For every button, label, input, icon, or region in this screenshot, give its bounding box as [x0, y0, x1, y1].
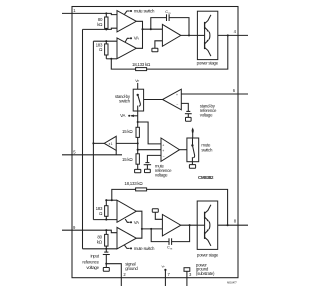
- node miller cap right ch2: [189, 224, 191, 226]
- svg-text:VA: VA: [134, 220, 139, 225]
- wire summing node to U5 input: [142, 228, 163, 230]
- svg-text:m: m: [170, 248, 173, 251]
- svg-text:C: C: [165, 9, 168, 14]
- node top of R8: [105, 229, 107, 231]
- mute reference voltage source: [144, 155, 161, 172]
- power ground symbol: [184, 268, 190, 286]
- svg-text:voltage: voltage: [155, 173, 168, 178]
- VA tap at T2: [125, 36, 139, 42]
- node T1+T2 outputs: [141, 28, 143, 30]
- VA tap at T6: [125, 219, 139, 225]
- resistor R 80k (ch2): [105, 230, 108, 249]
- wire J1 to buffer input: [116, 142, 138, 144]
- signal ground flag at U5: [152, 209, 162, 220]
- svg-text:Ω: Ω: [99, 211, 103, 216]
- svg-text:7: 7: [168, 272, 171, 277]
- wire VA node to mute comparator top input: [138, 122, 161, 144]
- wire U1 output to power stage: [181, 34, 198, 36]
- svg-text:C: C: [167, 245, 170, 250]
- svg-text:Ω: Ω: [99, 47, 103, 52]
- signal ground flag at U1: [152, 41, 163, 52]
- wire pin 9 input: [62, 230, 117, 233]
- mute switch tap at T1: [125, 8, 156, 14]
- wire buffer feedback to pin 5 line: [115, 150, 117, 154]
- op-amp U5 (ch2 driver): [162, 215, 180, 236]
- wire T1 output: [136, 21, 142, 29]
- resistor R 80k (ch1): [105, 13, 108, 29]
- node miller cap tap ch1: [150, 28, 152, 30]
- svg-text:CM8382: CM8382: [198, 175, 214, 180]
- svg-text:−: −: [176, 103, 178, 107]
- svg-text:voltage: voltage: [86, 265, 99, 270]
- capacitor Cm (ch2 miller): [151, 225, 189, 245]
- svg-text:(substrate): (substrate): [196, 271, 215, 276]
- wire T6 output: [136, 211, 142, 229]
- wire feedback ch2: [112, 189, 228, 225]
- transistors Q1 Q2 (ch1 power stage): [197, 15, 211, 56]
- wire T2 output: [136, 29, 142, 48]
- wire switch drive from U2: [144, 99, 163, 101]
- wire 80k bottom node to T1 inverting input: [83, 28, 118, 29]
- svg-text:VA: VA: [120, 113, 125, 118]
- svg-text:VP: VP: [135, 79, 139, 83]
- wire pin 2 signal ground: [106, 264, 121, 286]
- svg-text:ground: ground: [125, 266, 138, 271]
- svg-text:183: 183: [96, 206, 103, 211]
- wire rail A to 80k bottom and T7 lower input: [83, 248, 118, 250]
- svg-text:3: 3: [189, 272, 192, 277]
- transistors Q3 Q4 (ch2 power stage): [197, 205, 211, 246]
- svg-text:voltage: voltage: [200, 113, 213, 118]
- svg-text:4: 4: [234, 29, 237, 34]
- wire summing node to U1 input: [143, 28, 163, 30]
- svg-text:MGU477: MGU477: [227, 280, 237, 284]
- wire feedback ch1: [111, 35, 228, 69]
- svg-text:+: +: [162, 149, 164, 153]
- wire buffer output to rail B: [93, 142, 104, 144]
- op-amp T7 (ch2 input amp): [117, 227, 136, 249]
- svg-text:15 kΩ: 15 kΩ: [122, 157, 133, 162]
- node output ch1: [227, 34, 229, 36]
- input reference voltage source: [103, 249, 110, 264]
- wire rail B to T2 top input: [93, 40, 117, 42]
- node top of R2: [105, 40, 107, 42]
- op-amp U1 (ch1 driver): [162, 24, 180, 46]
- node fb tap ch2: [111, 199, 113, 201]
- node VP pin terminal: [164, 269, 166, 271]
- node signal ground ref: [105, 263, 107, 265]
- op-amp T1 (ch1 input amp): [117, 11, 136, 32]
- wire rail C below switch: [137, 111, 139, 127]
- node top of R1: [105, 12, 107, 14]
- mute switch box: [187, 138, 199, 162]
- resistor R 18,133k (ch2 feedback): [136, 188, 147, 191]
- svg-text:VP: VP: [161, 264, 165, 268]
- svg-text:80: 80: [97, 235, 102, 240]
- signal ground flag at reference: [103, 264, 109, 272]
- mute switch contact: [191, 144, 194, 164]
- svg-text:kΩ: kΩ: [97, 240, 103, 245]
- svg-text:−: −: [163, 155, 165, 159]
- svg-text:8: 8: [234, 219, 237, 224]
- svg-text:m: m: [168, 12, 171, 15]
- stand-by switch contact: [137, 94, 141, 111]
- svg-text:2: 2: [123, 272, 126, 277]
- resistor R 183 (ch2): [105, 200, 108, 219]
- wire output pin 8: [218, 224, 248, 226]
- wire rail B (VA bias bus): [92, 41, 94, 219]
- svg-text:mute switch: mute switch: [134, 8, 155, 13]
- svg-text:mute switch: mute switch: [134, 246, 155, 251]
- node bottom of R7: [105, 219, 107, 221]
- wire VP to stand-by switch: [137, 83, 139, 95]
- resistor R 15k upper: [136, 127, 139, 137]
- op-amp T2 (ch1 VA amp): [117, 38, 136, 59]
- wire fb to T6 top input: [106, 199, 117, 201]
- resistor R 18,133k (ch1 feedback): [136, 68, 147, 71]
- node below R8: [105, 248, 107, 250]
- svg-text:18,133 kΩ: 18,133 kΩ: [132, 62, 151, 67]
- node T6+T7 outputs: [141, 228, 143, 230]
- wire pin 1 input: [62, 13, 117, 14]
- node J1 divider mid: [137, 142, 139, 144]
- stand-by reference voltage source: [181, 103, 191, 121]
- mute switch tap at T7: [125, 245, 156, 251]
- svg-text:1: 1: [73, 8, 76, 13]
- capacitor Cm (ch1 miller): [151, 14, 189, 35]
- svg-text:9: 9: [73, 225, 76, 230]
- wire output pin 4: [218, 34, 248, 36]
- resistor R 15k lower: [136, 154, 139, 164]
- svg-text:+: +: [176, 93, 178, 97]
- wire pin 5: [62, 154, 122, 156]
- op-amp U4 (mute comparator): [161, 138, 180, 161]
- svg-text:x 1: x 1: [109, 142, 113, 146]
- svg-text:reference: reference: [82, 259, 99, 264]
- wire U5 output to power stage: [181, 224, 197, 226]
- svg-text:5: 5: [73, 150, 76, 155]
- op-amp U2 (stand-by comparator): [163, 89, 182, 110]
- node buffer out on rail B: [92, 142, 94, 144]
- node feedback tap ch1: [110, 58, 112, 60]
- node VA branch: [137, 121, 139, 123]
- signal ground flag below divider: [135, 164, 141, 173]
- node output ch2: [227, 224, 229, 226]
- resistor R 183 (ch1): [105, 41, 108, 59]
- wire pin 7 VP supply: [164, 270, 166, 286]
- node below R1: [105, 28, 107, 30]
- svg-text:switch: switch: [119, 98, 131, 103]
- node miller cap tap ch2: [150, 228, 152, 230]
- svg-text:80: 80: [98, 17, 103, 22]
- svg-text:switch: switch: [201, 147, 213, 152]
- op-amp U3 (x1 buffer): [104, 136, 116, 150]
- signal ground flag below mute switch: [189, 165, 195, 169]
- wire 183 bottom to T2 lower input: [106, 58, 117, 60]
- node J2: [137, 149, 139, 151]
- svg-text:6: 6: [233, 88, 236, 93]
- svg-text:input: input: [90, 254, 99, 259]
- wire rail B to T6 bottom input: [93, 219, 117, 221]
- stand-by switch box: [133, 89, 143, 111]
- wire rail A (inverting bus): [82, 29, 84, 248]
- power stage box (ch1): [197, 11, 217, 59]
- op-amp T6 (ch2 VA amp): [117, 200, 136, 222]
- svg-text:VA: VA: [134, 36, 139, 41]
- power stage box (ch2): [197, 201, 218, 249]
- svg-text:18,133 kΩ: 18,133 kΩ: [124, 181, 143, 186]
- node top of R7: [105, 199, 107, 201]
- svg-text:183: 183: [96, 42, 103, 47]
- VA tap arrow: [120, 113, 138, 118]
- wire U4 output to mute switch: [180, 149, 187, 151]
- svg-text:+: +: [162, 143, 164, 147]
- node miller cap right ch1: [188, 34, 190, 36]
- svg-text:power stage: power stage: [197, 253, 219, 258]
- svg-text:15 kΩ: 15 kΩ: [122, 129, 133, 134]
- wire pin 6 stand-by input: [181, 93, 248, 95]
- mute switch arrow to power stages: [191, 127, 194, 144]
- IC outline box: [72, 7, 238, 278]
- wire J2 to mute comparator mid input: [138, 149, 161, 151]
- wire T7 output: [136, 229, 142, 238]
- svg-text:kΩ: kΩ: [97, 22, 103, 27]
- svg-text:power stage: power stage: [197, 60, 219, 65]
